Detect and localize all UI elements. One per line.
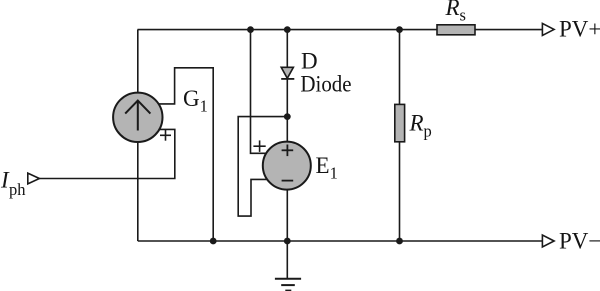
- ground: [275, 279, 301, 291]
- svg-text:D: D: [301, 49, 318, 74]
- junction dot bottom rail / ground: [284, 238, 291, 245]
- junction dot top rail / E1 plus sense: [247, 26, 254, 33]
- label + of G1 control: [160, 130, 171, 141]
- wire E1 bottom through rail to ground: [286, 188, 288, 279]
- wire Rp branch vertical: [399, 30, 401, 241]
- svg-text:Diode: Diode: [300, 72, 351, 97]
- resistor Rp: [395, 104, 405, 141]
- label + of E1 control: [253, 140, 265, 152]
- svg-text:R: R: [445, 0, 460, 20]
- output arrow PV+: [542, 23, 554, 35]
- junction dot top rail / diode: [284, 26, 291, 33]
- svg-text:ph: ph: [9, 180, 26, 199]
- wire G1 upper sense loop to bottom rail: [159, 68, 213, 241]
- wire top rail: [138, 29, 543, 31]
- wire bottom rail: [138, 240, 543, 242]
- junction dot bottom rail / G1 loop: [210, 238, 217, 245]
- wire G1 plus control stub to Iph: [39, 129, 174, 178]
- svg-text:R: R: [409, 111, 424, 136]
- output arrow PV-: [542, 235, 554, 247]
- wire E1 plus sense from top rail: [251, 30, 268, 154]
- junction dot diode cathode node: [284, 113, 291, 120]
- junction dot top rail / Rp: [396, 26, 403, 33]
- junction dot bottom rail / Rp: [396, 238, 403, 245]
- voltage source E1: [263, 142, 311, 190]
- svg-text:PV−: PV−: [559, 229, 600, 254]
- current source G1: [113, 93, 162, 142]
- resistor Rs: [437, 25, 475, 35]
- wire G1 bottom to bottom rail: [137, 141, 139, 241]
- wire diode branch vertical: [286, 30, 288, 143]
- input arrow Iph: [28, 173, 40, 184]
- svg-text:PV+: PV+: [559, 17, 600, 42]
- svg-text:p: p: [424, 122, 432, 141]
- svg-text:E1: E1: [316, 153, 338, 182]
- diode D: [281, 67, 294, 79]
- wire E1 minus sense staircase to diode junction: [238, 117, 287, 217]
- svg-text:s: s: [460, 6, 466, 25]
- wire left vertical from top rail to G1: [137, 30, 139, 94]
- svg-text:G1: G1: [183, 86, 208, 116]
